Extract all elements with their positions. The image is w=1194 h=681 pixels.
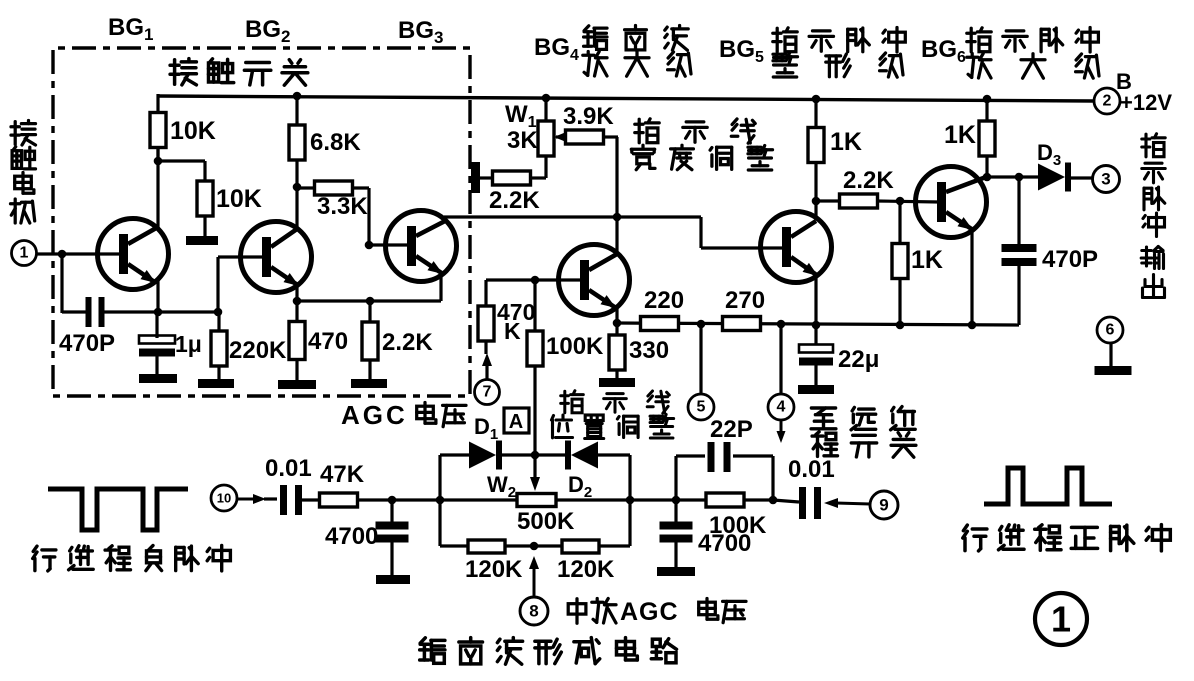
ground below 10K [186, 236, 218, 245]
wire 3.9K down to BG4 collector [615, 137, 618, 251]
emitter bus wire to right [617, 323, 1019, 325]
resistor 100K to node A [533, 280, 536, 331]
wire BG5 collector up [814, 161, 817, 219]
label indicator pulse 2 [967, 28, 991, 52]
resistor 6.8K [295, 96, 298, 124]
ground below 220K [198, 379, 234, 388]
transistor BG3 [386, 211, 457, 282]
svg-text:+12V: +12V [1120, 90, 1172, 115]
terminal 8 IF AGC [520, 597, 548, 625]
svg-text:3.9K: 3.9K [563, 103, 614, 130]
capacitor 4700 right [674, 500, 677, 524]
svg-text:470: 470 [308, 328, 348, 355]
wire to 0.01 out [773, 500, 799, 502]
node dot 1K bias bottom [896, 321, 905, 330]
svg-text:1: 1 [20, 245, 29, 262]
ground below 6 [1095, 366, 1132, 375]
node dot BG6 base [896, 197, 905, 206]
resistor 100K output [706, 493, 744, 507]
svg-text:AGC: AGC [620, 598, 679, 626]
arrow from terminal 8 [533, 568, 536, 596]
wire 6 to ground [1109, 343, 1112, 367]
transistor BG4 [559, 245, 630, 316]
wire BG2 emitter down [295, 283, 298, 301]
svg-text:500K: 500K [517, 508, 575, 535]
svg-text:22P: 22P [710, 416, 753, 443]
terminal 2 +12V [1094, 88, 1120, 114]
wire D1 anode [440, 453, 469, 456]
label indicator line position adjust [561, 391, 584, 413]
svg-text:8: 8 [529, 602, 538, 621]
wire emitter bus to BG2 base leg [158, 310, 218, 313]
potentiometer W1 3K [544, 98, 547, 121]
wire 3.3K to BG3 base [367, 188, 370, 245]
label horizontal retrace positive pulse [963, 525, 987, 551]
wire BG2 base [216, 257, 219, 312]
figure number 1 [1035, 593, 1087, 645]
wire D3 to terminal 3 [1071, 176, 1092, 179]
svg-text:A: A [509, 411, 523, 433]
label sawtooth forming circuit [420, 638, 445, 664]
svg-text:2.2K: 2.2K [382, 329, 433, 356]
node dot BG6 collector [983, 173, 992, 182]
shield contact bar [471, 162, 480, 193]
resistor 220K [217, 314, 220, 331]
wire D2 to loop right [598, 453, 630, 456]
node dot 3.3K tap [293, 183, 302, 192]
svg-text:1μ: 1μ [175, 331, 202, 357]
svg-text:10K: 10K [216, 185, 262, 213]
node dot 4700R tap [672, 496, 681, 505]
resistor 120K left [440, 544, 468, 547]
node dot 22u tap [812, 321, 821, 330]
terminal 6 [1097, 317, 1123, 343]
node dot 100K tap [531, 276, 540, 285]
capacitor 0.01 output [799, 487, 806, 519]
diode D1 [469, 442, 496, 469]
node dot 0.01 out tap [769, 496, 778, 505]
terminal 5 [688, 394, 714, 420]
ground below 330 [599, 378, 635, 387]
node dot 5 tap [697, 320, 706, 329]
svg-text:K: K [504, 318, 521, 344]
capacitor 4700 left [390, 500, 393, 524]
main sawtooth wire [357, 498, 440, 501]
wire to terminal 5 [699, 324, 702, 394]
node dot BG2 base leg [214, 308, 223, 317]
node dot BG2 emitter [293, 297, 302, 306]
wire 10K to ground [203, 216, 206, 237]
wire to terminal 4 [779, 324, 782, 394]
resistor 220 [641, 317, 679, 331]
transistor BG2 [241, 222, 312, 293]
terminal 1 touch electrode [12, 241, 37, 266]
wire BG1 collector to rail [156, 94, 159, 161]
svg-text:120K: 120K [557, 556, 615, 583]
transistor BG5 [761, 212, 832, 283]
resistor 270 [723, 317, 761, 331]
resistor 470K [484, 280, 487, 306]
capacitor 22u electrolytic [814, 325, 817, 347]
label indicator line width adjust [635, 119, 659, 143]
wire to second 10K [158, 159, 205, 162]
svg-text:1K: 1K [944, 121, 976, 149]
wire BG3 collector to BG5 base [444, 215, 701, 218]
node dot BG3-BG5 wire [613, 213, 622, 222]
diode loop right edge [628, 455, 631, 546]
positive pulse waveform [984, 468, 1112, 504]
svg-text:120K: 120K [465, 556, 523, 583]
svg-text:6.8K: 6.8K [310, 129, 361, 156]
terminal 9 positive pulse in [870, 491, 898, 519]
node dot loop right [626, 496, 635, 505]
node dot 2.2K emitter [366, 297, 375, 306]
node dot rail 1K BG6 [983, 95, 992, 104]
label 接触电极 touch electrode (vertical) [11, 121, 36, 146]
terminal 10 input [211, 485, 237, 511]
label horizontal retrace negative pulse [33, 546, 56, 571]
node dot 2.2K coupling tap [812, 197, 821, 206]
arrow into 0.01 [237, 498, 254, 501]
resistor 47K [320, 493, 358, 507]
capacitor 470P output [1017, 177, 1020, 247]
wire emitter bus BG2-BG3 [297, 299, 441, 302]
svg-text:1: 1 [1051, 599, 1071, 640]
transistor BG1 [98, 219, 169, 290]
svg-text:470P: 470P [59, 330, 115, 357]
resistor 2.2K coupling [816, 199, 840, 202]
svg-text:22μ: 22μ [838, 346, 879, 373]
node dot A [531, 451, 540, 460]
ground below 470 [278, 380, 316, 389]
resistor 330 [615, 323, 618, 336]
capacitor 22P bypass [674, 456, 677, 500]
node A box label [504, 408, 529, 433]
wire BG4 emitter [615, 306, 618, 323]
node dot AGC mid tap [530, 542, 539, 551]
label sawtooth amplifier stage [584, 26, 607, 50]
svg-text:3.3K: 3.3K [317, 193, 368, 220]
W1 wiper arrow [556, 135, 566, 138]
resistor R 10K collector BG1 [150, 113, 166, 148]
wire BG2 collector to 6.8K [295, 161, 298, 231]
resistor 1K BG5 collector [808, 128, 824, 163]
vertical label indicator pulse output [1142, 134, 1165, 157]
diode D2 [565, 441, 571, 470]
svg-text:3K: 3K [507, 127, 538, 154]
terminal 7 AGC voltage in [475, 380, 500, 405]
terminal 3 indicator pulse out [1093, 166, 1120, 193]
node dot rail 6.8K [293, 92, 302, 101]
svg-text:330: 330 [629, 337, 669, 364]
resistor 3.9K [566, 130, 604, 144]
svg-text:270: 270 [725, 287, 765, 314]
node dot loop left [436, 496, 445, 505]
svg-text:47K: 47K [320, 461, 365, 488]
node dot emitter junction [154, 308, 163, 317]
svg-text:0.01: 0.01 [788, 456, 835, 483]
wire node1 to BG1 base [37, 252, 121, 255]
capacitor 0.01 input [280, 485, 287, 515]
svg-text:220K: 220K [229, 337, 287, 364]
label to near-far range switch [811, 408, 836, 429]
wire BG3 emitter down [439, 272, 442, 301]
node dot rail 1K BG5 [812, 95, 821, 104]
svg-text:100K: 100K [709, 512, 767, 539]
node dot BG4 emitter [613, 319, 622, 328]
wire BG5 emitter down [814, 274, 817, 325]
resistor 120K right [534, 544, 562, 547]
svg-text:100K: 100K [546, 333, 604, 360]
ground below 2.2K [351, 379, 387, 388]
wire BG1 emitter down [156, 280, 159, 313]
svg-text:2.2K: 2.2K [489, 187, 540, 214]
capacitor 1u electrolytic [139, 336, 175, 344]
ground below 1u [139, 374, 177, 383]
potentiometer W2 500K [517, 494, 556, 507]
node dot 4700 tap [388, 496, 397, 505]
ground below 22u [798, 385, 834, 394]
node dot rail W1 [542, 94, 551, 103]
wire BG6 emitter down [970, 228, 973, 325]
resistor 3.3K [297, 186, 315, 189]
svg-text:470P: 470P [1042, 246, 1098, 273]
svg-text:3: 3 [1101, 170, 1110, 189]
svg-text:4: 4 [777, 399, 786, 416]
wire BG5 base step [699, 217, 702, 248]
resistor R 10K base divider [197, 181, 213, 216]
W2 wiper arrow [533, 455, 536, 477]
svg-text:7: 7 [483, 384, 492, 401]
wire down from base junction to 470P [60, 254, 63, 313]
svg-text:1K: 1K [911, 246, 943, 274]
node dot 10K junction [154, 157, 163, 166]
svg-text:5: 5 [697, 399, 706, 416]
diode loop left edge [438, 455, 441, 546]
svg-text:6: 6 [1106, 322, 1115, 339]
transistor BG6 [916, 167, 987, 238]
arrow from node7 into 470K [485, 364, 488, 380]
dashed shield box around BG1-BG3 touch-switch stage [53, 48, 470, 396]
arrow down to near-far switch [780, 420, 783, 432]
svg-text:10: 10 [217, 491, 231, 506]
wire D1 to node A [502, 453, 565, 456]
label 接触开关 touch switch [170, 59, 196, 85]
+12V supply rail [158, 96, 1094, 101]
resistor 2.2K to shield [480, 176, 493, 179]
svg-text:9: 9 [879, 496, 888, 515]
wire collector to D3 [987, 175, 1038, 178]
svg-text:220: 220 [644, 287, 684, 314]
svg-text:AGC: AGC [341, 400, 408, 430]
svg-text:2: 2 [1103, 93, 1112, 110]
wire 10K junction down to BG1 collector [156, 161, 159, 228]
wire 470P to emitter wire [62, 310, 87, 313]
resistor 470 emitter BG2 [295, 301, 298, 321]
arrow from terminal 9 [836, 503, 870, 504]
label IF AGC voltage [568, 599, 586, 623]
ground below 4700 [376, 575, 410, 584]
node dot 470P tap [1015, 173, 1024, 182]
resistor 1K BG6 base bias [898, 201, 901, 243]
node dot BG6 emitter [968, 321, 977, 330]
svg-text:2.2K: 2.2K [843, 167, 894, 194]
wire to 100K output [676, 498, 707, 501]
ground below 4700 right [657, 567, 695, 576]
wire BG4 base [486, 278, 580, 281]
resistor 2.2K emitter [368, 301, 371, 322]
wire to 47K [302, 498, 320, 501]
label indicator pulse [773, 28, 797, 52]
svg-text:4700: 4700 [325, 523, 378, 550]
svg-text:10K: 10K [170, 117, 216, 145]
capacitor 470P base-emitter [86, 297, 92, 327]
svg-text:0.01: 0.01 [265, 455, 312, 482]
negative pulse waveform [48, 489, 188, 530]
wire main through W2 [440, 498, 517, 501]
resistor 1K BG6 collector [985, 97, 988, 122]
svg-text:1K: 1K [830, 128, 862, 156]
node dot base junction [58, 250, 67, 259]
node dot 4 tap [777, 320, 786, 329]
diode D3 [1038, 164, 1065, 191]
terminal 4 [768, 394, 794, 420]
